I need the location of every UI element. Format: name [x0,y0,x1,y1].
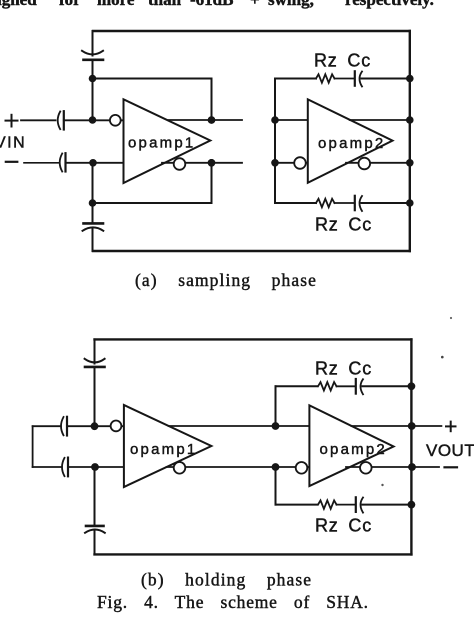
node: top feedback right [406,75,414,83]
svg-text:VOUT: VOUT [426,441,474,460]
svg-text:opamp2: opamp2 [318,135,385,152]
stray speck 3 [441,356,444,359]
svg-text:swing,: swing, [268,0,314,9]
stray speck 1 [450,317,452,319]
wire: + input to coupling cap [21,119,56,121]
capacitor Cc top flat plate [354,71,356,85]
wire: opamp1 bottom feedback vertical [211,163,213,203]
wire: left vertical - input down to bottom feedback [92,163,94,223]
capacitor C2 flat plate [84,222,104,225]
wire: left vertical below C1 to input line [92,62,94,121]
capacitor Cc3 curved plate [361,379,364,394]
opamp U2 input bubble [294,157,306,169]
outer loop bottom edge [93,250,410,252]
wire: opamp2 bottom input line [275,162,308,164]
capacitor C2 curved plate [83,227,104,230]
svg-text:Rz Cc: Rz Cc [315,359,372,379]
svg-text:igned: igned [0,0,37,9]
svg-text:respectively.: respectively. [345,0,434,9]
input capacitor bottom flat plate b [67,458,69,477]
input capacitor bottom curved plate b [62,458,65,476]
opamp U1 triangle [124,99,211,183]
coupling capacitor top curved plate [58,112,61,130]
svg-text:(b) holding phase: (b) holding phase [141,570,312,590]
wire: cap to right edge bottom [362,202,410,204]
capacitor C4 flat plate [86,525,104,528]
svg-text:-61dB: -61dB [190,0,233,9]
wire: opamp2 top output [350,119,410,121]
svg-text:more: more [97,0,135,9]
capacitor C1 curved plate [82,51,103,55]
capacitor Cc bottom flat plate [354,196,356,210]
coupling capacitor top flat plate [63,111,65,129]
node: opamp2 top output right b [408,422,416,430]
wire: top feedback left segment [275,78,316,80]
opamp U3 input bubble [111,421,122,432]
wire: opamp1 bottom output line to stub end [162,162,242,164]
node: opamp2 bottom output right [406,159,414,167]
capacitor C3 flat plate [85,366,105,369]
opamp U2 triangle [308,99,393,183]
node: opamp2 top input [271,116,279,124]
capacitor C3 curved plate [85,359,105,363]
node: opamp1 bottom output [208,159,216,167]
stray speck 2 [381,484,383,486]
node: opamp2 bottom input [271,159,279,167]
node: opamp2 bottom output right b [408,463,416,471]
node: opamp2 top output right [406,116,414,124]
svg-text:Rz Cc: Rz Cc [314,50,371,70]
minus sign output [445,466,458,468]
wire: opamp1 bottom feedback horizontal [93,202,212,204]
node: opamp1 top output [208,116,216,124]
node: feedback tee left bottom [89,199,97,207]
node: bottom feedback right b [408,501,416,509]
node: left on + input line [89,116,97,124]
plus sign output [446,422,456,432]
wire: bottom feedback left segment [275,202,316,204]
wire: resistor to cap b bottom [337,504,356,506]
resistor Rz top zigzag b [318,382,336,390]
node: bottom feedback right [406,199,414,207]
opamp U1 output bubble [174,158,186,170]
wire: left vertical bottom line down to C4 [94,467,96,525]
wire: opamp2 input vertical [274,79,276,204]
node: interstage bottom b [272,463,280,471]
svg-text:VIN: VIN [0,135,26,152]
wire: cap to opamp1 b [67,425,124,427]
svg-text:Rz Cc: Rz Cc [315,215,372,235]
wire: opamp1 top feedback horizontal [93,78,212,80]
wire: cap to opamp1 +in [64,119,124,121]
capacitor C4 curved plate [85,530,105,533]
node: left on top input line b [91,422,99,430]
capacitor Cc top curved plate [360,72,363,87]
wire: resistor to cap [335,78,355,80]
wire: cap to right edge [362,78,410,80]
node: left on bottom line b [91,463,99,471]
wire: opamp2 bottom output b [346,466,439,468]
wire: cap to right edge b bottom [363,504,412,506]
wire: left vertical top segment b [94,339,96,363]
capacitor Cc4 flat plate [355,497,357,512]
svg-text:opamp1: opamp1 [130,441,197,458]
outer loop right edge b [410,339,412,554]
svg-text:opamp2: opamp2 [320,441,387,458]
outer loop bottom edge b [95,553,412,555]
opamp U3 triangle [124,405,211,487]
svg-text:Rz Cc: Rz Cc [315,516,372,536]
resistor Rz top zigzag [316,74,334,82]
wire: opamp1 top output line to stub end [169,119,243,121]
input capacitor top flat plate b [66,417,68,436]
opamp U3 output bubble [174,462,186,474]
wire: bottom feedback left segment b [276,504,318,506]
node: opamp1 top output redraw [208,116,216,124]
top cropped text line [0,0,434,9]
capacitor C1 flat plate [84,58,104,61]
node: feedback tee left top [89,75,97,83]
coupling capacitor bottom flat plate [64,153,66,171]
wire: input short left vertical [32,426,34,467]
node: top feedback right b [408,382,416,390]
input capacitor top curved plate b [61,417,64,435]
wire: opamp2 bottom output [346,162,410,164]
opamp U2 output bubble [359,158,371,170]
resistor Rz bottom zigzag b [318,500,336,508]
wire: cap to opamp1 -in b [68,466,124,468]
wire: left vertical below C3 to input line [94,369,96,427]
coupling capacitor bottom curved plate [60,154,63,172]
outer loop top edge b [95,338,412,340]
wire: left vertical top segment [92,31,94,56]
minus sign input [6,161,17,163]
svg-text:Fig. 4. The scheme of SHA.: Fig. 4. The scheme of SHA. [97,592,369,612]
node: left on - input line [89,159,97,167]
wire: input top stub to cap [33,425,61,427]
wire: input bottom stub to cap [33,466,62,468]
wire: - input to coupling cap [24,162,60,164]
wire: opamp2 top input line [275,119,308,121]
outer loop top edge [93,30,410,32]
plus sign input [6,115,18,127]
opamp U4 output bubble [360,462,372,474]
wire: opamp2 bottom feedback vertical b [275,467,277,505]
wire: opamp1 top feedback vertical [211,79,213,121]
wire: resistor to cap bottom [335,202,355,204]
wire: below C2 to bottom edge [92,228,94,251]
capacitor Cc bottom curved plate [360,196,363,211]
opamp U1 input bubble [110,115,121,126]
capacitor Cc4 curved plate [361,498,364,513]
capacitor Cc3 flat plate [355,379,357,394]
wire: top feedback left segment b [276,385,318,387]
wire: below C4 to bottom edge b [94,530,96,555]
outer loop right edge [409,31,411,251]
svg-text:than: than [148,0,182,9]
wire: opamp1 top output line b (to opamp2) [169,425,310,427]
svg-text:for: for [59,0,81,9]
wire: cap to opamp1 -in [66,162,124,164]
svg-text:opamp1: opamp1 [128,135,195,152]
wire: opamp2 top output b [352,425,442,427]
node: interstage top b [272,422,280,430]
wire: resistor to cap b top [337,385,356,387]
wire: opamp1 bottom output line b (to opamp2) [167,466,310,468]
opamp U4 triangle [309,405,393,486]
wire: opamp2 top feedback vertical b [275,386,277,426]
resistor Rz bottom zigzag [316,199,334,207]
svg-text:(a) sampling phase: (a) sampling phase [135,270,317,290]
svg-text:+: + [250,0,260,9]
node: opamp1 bottom output redraw [208,159,216,167]
opamp U4 input bubble [296,462,308,474]
wire: cap to right edge b top [363,385,412,387]
